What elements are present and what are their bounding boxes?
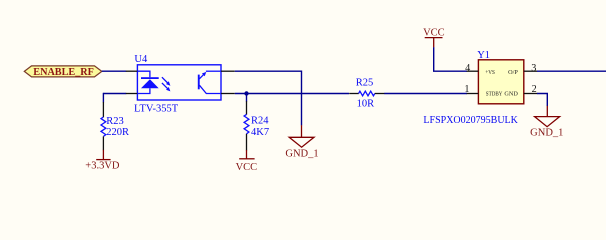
svg-text:R24: R24	[251, 115, 269, 126]
ground GND_1 (left)	[289, 125, 314, 147]
power +3.3VD	[96, 150, 110, 160]
svg-text:3: 3	[531, 63, 536, 74]
U4 pin 2	[126, 93, 138, 95]
wire U4 pin2 horizontal	[103, 93, 126, 95]
wire U4 pin2 down to R23	[102, 93, 104, 103]
svg-text:4K7: 4K7	[251, 127, 269, 138]
resistor R25	[349, 93, 359, 95]
wire collector to GND_1	[235, 71, 302, 125]
svg-text:ENABLE_RF: ENABLE_RF	[33, 67, 94, 78]
svg-text:GND: GND	[504, 92, 518, 98]
junction dot node emitter/R24	[244, 91, 248, 95]
wire R25 to Y1 pin1	[384, 93, 467, 95]
svg-text:1: 1	[464, 84, 469, 95]
LED inside U4	[137, 71, 158, 93]
svg-text:+VS: +VS	[485, 70, 495, 76]
svg-text:U4: U4	[134, 54, 148, 65]
Y1 pin 1	[467, 93, 479, 95]
svg-text:+3.3VD: +3.3VD	[85, 161, 120, 172]
U4 pin 1	[126, 70, 138, 72]
transistor inside U4	[198, 71, 221, 93]
wire Y1 pin2 to GND_1	[537, 94, 547, 107]
svg-text:2: 2	[532, 84, 537, 95]
svg-text:4: 4	[465, 63, 470, 74]
svg-text:220R: 220R	[106, 127, 129, 138]
U4 pin 3 (emitter)	[221, 93, 235, 95]
wire port to U4 pin1	[102, 70, 126, 72]
ground GND_1 (right)	[535, 106, 560, 127]
wire Y1 pin3 to right edge	[537, 70, 606, 72]
resistor R24	[246, 101, 248, 114]
svg-text:R23: R23	[106, 116, 124, 127]
U4 pin 4 (collector)	[221, 70, 235, 72]
svg-text:GND_1: GND_1	[530, 128, 563, 139]
oscillator Y1 box	[478, 60, 523, 104]
Y1 pin 2	[524, 93, 537, 95]
LED light arrows	[162, 77, 171, 91]
svg-text:LTV-355T: LTV-355T	[134, 103, 179, 114]
wire emitter to R25	[235, 93, 349, 95]
svg-text:R25: R25	[356, 78, 374, 89]
svg-text:LFSPXO020795BULK: LFSPXO020795BULK	[423, 115, 518, 126]
svg-text:O/P: O/P	[508, 70, 518, 76]
svg-text:10R: 10R	[357, 99, 375, 110]
svg-text:STDBY: STDBY	[486, 92, 503, 98]
svg-text:GND_1: GND_1	[285, 148, 318, 159]
power VCC (bottom)	[239, 150, 254, 159]
svg-text:VCC: VCC	[236, 162, 258, 173]
optocoupler U4 box	[137, 65, 221, 100]
Y1 pin 3	[524, 70, 537, 72]
port ENABLE_RF	[24, 66, 102, 78]
wire junction down to R24	[246, 94, 248, 102]
Y1 pin 4	[467, 70, 479, 72]
wire VCC down and to Y1 pin4	[434, 47, 467, 71]
resistor R23	[102, 102, 104, 117]
